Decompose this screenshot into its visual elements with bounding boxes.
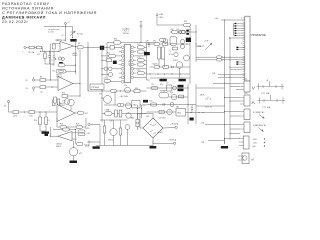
capacitor C13 — [163, 103, 165, 105]
connector XP1 pin 27 — [243, 72, 245, 74]
dark dot pair a — [186, 30, 189, 32]
svg-text:+ ВЫХОД: + ВЫХОД — [170, 124, 179, 126]
connector XP1 pin 25 — [243, 68, 245, 70]
wire X4 down — [9, 103, 14, 112]
connector XP1 pin 26 — [243, 70, 245, 72]
ground bar under bridge — [150, 146, 157, 149]
connector XP5 stub2 — [240, 128, 244, 130]
transistor VT6 — [125, 87, 131, 93]
connector XP1 pin 20 — [243, 57, 245, 59]
junction c3 — [55, 58, 57, 60]
wire x100 v — [99, 125, 101, 146]
svg-text:С12: С12 — [176, 29, 179, 31]
svg-text:УПРАВЛЕНИЕ: УПРАВЛЕНИЕ — [251, 34, 267, 37]
wire R7 to darkbox — [84, 46, 100, 48]
junction y124 — [224, 124, 225, 125]
wire R19 up — [82, 118, 86, 127]
ground bar mid b — [179, 79, 186, 82]
svg-text:С20: С20 — [151, 84, 154, 86]
IC U1 right pin 10 — [131, 46, 134, 49]
wire X5 top bar — [140, 21, 142, 23]
wire c6 left — [102, 68, 104, 70]
regulator arrow head — [210, 43, 212, 45]
junction y138 — [224, 138, 225, 139]
junction y133 — [229, 133, 230, 134]
connector XP1 pin 2 — [243, 19, 245, 21]
wire c7 left — [102, 74, 108, 76]
junction y88 c — [187, 87, 188, 88]
wire y67 rail — [150, 66, 190, 68]
resistor R44 — [217, 59, 222, 62]
svg-text:12В: 12В — [146, 41, 150, 43]
svg-text:ХР6: ХР6 — [244, 93, 247, 95]
wire bridge top h — [138, 113, 154, 115]
wire bottom rail — [96, 145, 153, 147]
svg-text:КЦ405: КЦ405 — [158, 132, 163, 134]
connector XP4 stub2 — [240, 115, 244, 117]
junction x190 b — [189, 29, 190, 30]
resistor R11 — [57, 99, 60, 105]
terminal X10 — [156, 14, 158, 16]
capacitor C15 — [148, 43, 150, 45]
wire y38 conn — [230, 37, 245, 39]
bus x230 — [229, 38, 231, 140]
op-amp DA1.2 — [57, 105, 75, 122]
resistor R29 — [154, 66, 160, 69]
resistor R3 — [44, 53, 47, 59]
wire y57 long — [196, 56, 245, 58]
junction bus102 a — [101, 55, 102, 56]
wire x137 down — [137, 105, 139, 120]
junction y74 e — [179, 73, 180, 74]
wire t1a down — [158, 59, 160, 67]
svg-text:− 12В: − 12В — [252, 142, 258, 144]
bus x146 — [146, 43, 148, 81]
diode VD6 — [173, 86, 177, 90]
resistor R31 — [184, 23, 191, 26]
wire x120 link — [114, 91, 116, 105]
wire y67 stub — [230, 66, 245, 68]
wire X2 to R8 — [35, 79, 40, 81]
svg-text:+ 5В: + 5В — [252, 146, 257, 148]
junction y101 — [229, 100, 230, 101]
wire pin stub b y47.3 — [238, 46, 245, 48]
connector XP1 body — [245, 16, 250, 81]
wire y101 b — [230, 100, 240, 102]
wire y113 rail — [102, 113, 147, 115]
IC U1 left pin 6 — [121, 67, 124, 70]
wire R18 to R19 — [66, 126, 76, 128]
svg-text:РТ2 10А: РТ2 10А — [263, 106, 271, 109]
wire VT3 gnd — [73, 156, 75, 161]
wire DA1.4 feedback — [50, 127, 52, 136]
wire c9 drop — [128, 112, 130, 115]
svg-text:FU2: FU2 — [131, 118, 134, 120]
diode VD2 — [181, 30, 185, 34]
IC U1 right pin 17 — [131, 76, 134, 79]
bus x88 — [87, 42, 89, 91]
wire dotted rail — [41, 50, 61, 52]
svg-text:К73: К73 — [160, 84, 163, 86]
connector XP2 stub1 — [240, 83, 244, 85]
wire x65 down — [65, 27, 67, 42]
resistor box R20 — [110, 46, 114, 50]
servo arrow head — [262, 116, 264, 118]
fan symbol — [243, 156, 247, 160]
wire C1 top — [49, 51, 51, 55]
relay K1 — [167, 85, 172, 91]
dark bar left of T1 — [144, 52, 150, 55]
connector XP6 stub1 — [239, 138, 244, 140]
wire y133 b — [230, 133, 240, 135]
IC U1 left pin 2 — [121, 50, 124, 53]
symbol tick dot — [210, 98, 211, 99]
wire X5 down — [140, 27, 142, 42]
wire da14 out a — [72, 132, 78, 134]
svg-text:К СЕРВО ВС: К СЕРВО ВС — [253, 112, 265, 114]
svg-text:R2 10к: R2 10к — [77, 34, 83, 36]
capacitor C12 — [125, 103, 131, 109]
svg-text:РАЗРАБОТАЛ СХЕМУ: РАЗРАБОТАЛ СХЕМУ — [2, 2, 50, 6]
transistor VT7 — [104, 96, 112, 104]
diode VD4a — [181, 40, 185, 44]
wire X7 right — [90, 141, 100, 143]
net row dot3 — [264, 145, 265, 146]
wire right bus da14 — [75, 130, 77, 145]
svg-text:УПР. ВЫХ: УПР. ВЫХ — [91, 87, 100, 89]
svg-text:VT7: VT7 — [99, 94, 102, 96]
svg-text:R7: R7 — [78, 43, 80, 45]
symbol tick a — [205, 97, 208, 100]
wire y140 b — [208, 140, 225, 142]
IC DA7 7805 — [176, 109, 186, 117]
wire y89 b — [236, 89, 240, 91]
wire VT3 top — [73, 141, 75, 148]
junction bus75 b — [75, 71, 76, 72]
resistor R30 — [163, 66, 168, 69]
trimmer R2 bar — [70, 31, 75, 33]
wire da13 out bus — [79, 50, 81, 96]
svg-text:DA1.1 КР140: DA1.1 КР140 — [56, 39, 66, 42]
wire bridge gnd — [152, 142, 154, 147]
IC U1 left pin 3 — [121, 55, 124, 58]
junction mark b 49.4 — [236, 49, 238, 50]
wire da14 out b — [72, 138, 77, 140]
wire R13 to DA1.2 — [35, 111, 58, 113]
resistor ladder R26 — [137, 72, 144, 75]
svg-text:+5В: +5В — [215, 18, 219, 20]
wire C15 down — [148, 45, 150, 47]
connector XP2 — [244, 81, 250, 92]
wire R20 to IC pin1 — [114, 46, 121, 48]
junction x11 — [65, 26, 66, 27]
junction bus102 d — [101, 74, 102, 75]
svg-text:LM324: LM324 — [72, 55, 77, 57]
wire top y42 — [107, 42, 157, 44]
wire fu2 up — [137, 113, 139, 120]
svg-text:Х4: Х4 — [4, 106, 6, 108]
terminal X2 — [32, 79, 34, 81]
transistor VT2 — [64, 99, 70, 105]
capacitor C14 — [191, 108, 193, 110]
bus x196 low — [195, 84, 197, 124]
junction bus107 top — [106, 47, 107, 48]
wire X5 up — [140, 22, 142, 25]
bus x107 — [106, 43, 108, 85]
capacitor C6b — [108, 67, 112, 71]
connector XP1 pin 18 — [243, 53, 245, 55]
svg-text:М: М — [252, 158, 254, 162]
wire R14 drop — [39, 112, 41, 117]
svg-text:12В: 12В — [201, 142, 205, 144]
wire vt8 up — [113, 120, 115, 128]
wire t1b down — [164, 59, 166, 67]
terminal X8 plus — [175, 126, 177, 128]
capacitor C8 — [172, 66, 174, 68]
terminal X5 — [140, 25, 142, 27]
svg-text:А: А — [252, 100, 256, 106]
wire X6 right — [90, 124, 100, 126]
svg-text:С10: С10 — [138, 57, 141, 59]
wire c10 up — [120, 120, 122, 128]
connector XP6 stub3 — [239, 145, 244, 147]
trimmer R2 lead — [72, 27, 74, 38]
junction topr b — [186, 43, 187, 44]
svg-text:+12В: +12В — [197, 46, 202, 48]
transformer T1 — [158, 47, 161, 59]
junction mark 33.1 — [235, 32, 237, 33]
capacitor C11 — [125, 125, 130, 130]
wire bridge left — [140, 114, 143, 129]
junction vt7 — [101, 97, 102, 98]
junction j-r10 — [79, 95, 80, 96]
bus x88 low — [87, 47, 89, 91]
resistor R46 — [117, 103, 124, 106]
svg-text:СТАБ: СТАБ — [105, 109, 110, 112]
wire y78 rail — [150, 77, 190, 79]
junction j-da13a — [50, 79, 51, 80]
resistor R32 — [172, 30, 178, 33]
capacitor C6a — [104, 67, 108, 71]
junction a3 — [49, 51, 50, 52]
junction x137 — [137, 108, 138, 109]
connector XP3 — [244, 95, 250, 106]
resistor R49a — [78, 130, 85, 133]
wire pin stub b y49.4 — [238, 48, 245, 50]
bus x75 upper — [75, 40, 77, 74]
svg-text:- ВЫХОД: - ВЫХОД — [169, 139, 177, 141]
wire c14 dn — [191, 110, 193, 113]
op-amp DA1.3 — [58, 77, 73, 91]
resistor R33 — [180, 31, 185, 34]
wire y20 to conn — [221, 19, 245, 21]
connector XP1 pin 1 — [243, 17, 245, 19]
fuse FU2 — [136, 120, 139, 127]
wire R22 left — [102, 55, 109, 57]
svg-text:К1: К1 — [167, 83, 169, 85]
ground bar under VT3 — [70, 161, 78, 164]
diode VD4b — [181, 45, 185, 49]
resistor R22 — [109, 54, 116, 57]
junction mark b 47.3 — [236, 47, 238, 48]
capacitor C3 — [58, 57, 61, 60]
svg-text:VT6: VT6 — [124, 85, 127, 87]
ground bar under R2 — [70, 39, 76, 42]
capacitor C2 — [53, 56, 55, 58]
junction da13 out — [79, 83, 80, 84]
svg-text:СЕТЬ: СЕТЬ — [85, 128, 91, 130]
resistor R37 — [115, 110, 118, 117]
connector XP4 — [244, 109, 250, 120]
svg-text:ХР5: ХР5 — [244, 79, 247, 81]
svg-text:ПР1 2А: ПР1 2А — [28, 51, 35, 54]
wire bridge right — [163, 127, 175, 129]
wire pin stub b y64.1 — [238, 63, 245, 65]
junction y57b — [229, 57, 230, 58]
junction y74 c — [164, 73, 165, 74]
terminal X2 stub — [33, 77, 35, 79]
diode bridge VD3 — [170, 37, 177, 44]
connector XP1 pin 13 — [243, 42, 245, 44]
resistor R1 — [37, 46, 42, 49]
box UPR VYHOD — [90, 84, 104, 89]
junction mark 23.5 — [235, 23, 237, 24]
bus x196 — [195, 25, 197, 62]
svg-text:R31: R31 — [184, 21, 187, 23]
svg-text:R25: R25 — [138, 44, 141, 46]
dark capacitor C5 — [113, 61, 117, 64]
wire y116 b — [230, 115, 240, 117]
op-amp DA1.4 — [58, 132, 72, 141]
connector XP1 pin 7 — [243, 30, 245, 32]
wire y112 r — [147, 111, 177, 113]
transistor VT8 — [110, 128, 117, 135]
connector XP1 pin 29 — [243, 77, 245, 79]
wire DA1.3 out — [73, 83, 80, 85]
svg-text:10к: 10к — [40, 92, 43, 94]
IC U1 left pin 9 — [121, 80, 124, 83]
connector XP1 pin 23 — [243, 64, 245, 66]
connector XP1 pin 8 — [243, 32, 245, 34]
connector XP1 pin 24 — [243, 66, 245, 68]
junction y60b — [229, 59, 230, 60]
wire y32 — [170, 31, 196, 33]
svg-text:R5: R5 — [53, 65, 55, 67]
resistor R28 — [171, 43, 177, 46]
sensor arrow — [258, 128, 264, 132]
terminal X3 — [32, 87, 34, 89]
junction y112 e1 — [190, 112, 191, 113]
IC U1 right pin 12 — [131, 55, 134, 58]
wire y75 long — [218, 74, 245, 76]
bridge rectifier VD5 — [143, 118, 163, 138]
junction x5 — [140, 42, 141, 43]
IC U1 left pin 8 — [121, 76, 124, 79]
resistor R13 — [29, 111, 35, 114]
connector XP3 stub3 — [240, 103, 244, 105]
connector XP1 pin 6 — [243, 28, 245, 30]
connector XP1 pin 22 — [243, 62, 245, 64]
svg-text:КТ815: КТ815 — [173, 60, 178, 62]
wire pin stub y35.5 — [234, 35, 245, 37]
bus x224 — [224, 20, 226, 144]
junction y105 b — [143, 104, 144, 105]
wire R24 right — [111, 81, 119, 83]
junction da11 out — [75, 46, 76, 47]
wire y120 bus — [100, 119, 128, 121]
wire y46 to arrow — [196, 45, 205, 47]
svg-text:R18: R18 — [60, 123, 63, 125]
wire R1 to rail — [41, 48, 44, 52]
wire ladder out 0 — [144, 46, 146, 48]
resistor R27 — [163, 43, 168, 46]
terminal X7 — [88, 141, 90, 143]
transistor VT3 — [69, 148, 77, 156]
wire y97 — [169, 96, 189, 98]
bus x188 — [187, 84, 189, 124]
terminal X11 stub — [65, 25, 67, 27]
connector XP5 — [244, 122, 250, 133]
connector XP4 stub1 — [240, 111, 244, 113]
wire y105 rail — [104, 104, 147, 106]
svg-text:DA3: DA3 — [133, 104, 137, 107]
svg-text:ИСТОЧНИКА ПИТАНИЯ: ИСТОЧНИКА ПИТАНИЯ — [2, 7, 54, 11]
svg-text:С1: С1 — [51, 60, 53, 62]
svg-text:+ 12В: + 12В — [252, 139, 258, 141]
connector XP1 pin 17 — [243, 51, 245, 53]
connector XP1 pin 30 — [243, 79, 245, 81]
wire ladder plain 2 — [136, 55, 147, 57]
wire above DA1.4 — [53, 129, 76, 131]
net row dot2 — [264, 142, 265, 143]
wire y112 ext — [186, 112, 225, 114]
resistor R39 — [103, 126, 106, 133]
junction x196 b — [195, 43, 196, 44]
terminal X11 — [65, 23, 67, 25]
junction y84 — [224, 83, 225, 84]
wire VT1 down — [70, 106, 72, 112]
svg-text:+24В: +24В — [159, 14, 164, 16]
resistor R5 — [58, 64, 65, 67]
dark pair a — [178, 85, 184, 88]
dark bar near stab — [143, 100, 148, 103]
IC U1 right pin 11 — [131, 50, 134, 53]
junction y105 a — [120, 104, 121, 105]
ground bar mid a — [160, 79, 167, 82]
svg-text:С16: С16 — [110, 121, 113, 123]
title text block — [2, 2, 97, 24]
IC DA3 box — [132, 101, 140, 108]
connector XP1 pin 19 — [243, 55, 245, 57]
svg-text:К ДАТЧИКУ ВС: К ДАТЧИКУ ВС — [253, 124, 267, 127]
junction x141 — [141, 108, 142, 109]
resistor R42 — [151, 103, 157, 106]
svg-text:+В: +В — [266, 80, 269, 82]
IC U1 right pin 16 — [131, 72, 134, 75]
dark dot pair b — [186, 33, 189, 35]
connector XP1 pin 11 — [243, 38, 245, 40]
resistor R26 — [154, 43, 160, 46]
svg-text:С8: С8 — [104, 77, 106, 79]
svg-text:R17: R17 — [85, 113, 88, 115]
wire X10 down — [156, 16, 158, 25]
junction bus102 b — [101, 60, 102, 61]
resistor R47 — [77, 143, 84, 146]
junction y74 a — [149, 73, 150, 74]
bridge diode marks — [150, 124, 156, 134]
sensor arrow head — [261, 129, 263, 131]
wire ladder out 6 — [144, 72, 146, 74]
